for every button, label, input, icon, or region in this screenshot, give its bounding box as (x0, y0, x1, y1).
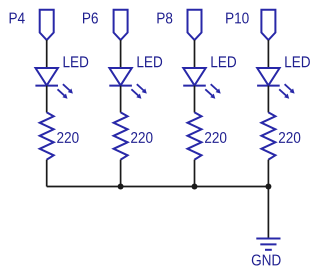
label 220 (R2 value) (131, 132, 152, 143)
label GND (252, 254, 281, 265)
wire LED3 to R3 (194, 86, 196, 113)
wire R4 to ground rail (267, 160, 269, 187)
junction node col4 on ground rail (265, 184, 271, 190)
wire R1 to ground rail (46, 160, 48, 187)
pin header P10 (261, 10, 275, 40)
label 220 (R3 value) (205, 132, 226, 143)
label P8 (157, 12, 172, 23)
label 220 (R4 value) (279, 132, 300, 143)
LED D2 (109, 68, 147, 99)
junction node col3 on ground rail (192, 184, 198, 190)
label P6 (83, 12, 98, 23)
wire P8 to LED3 (194, 40, 196, 68)
LED D4 (257, 68, 295, 99)
label LED (D3) (211, 56, 236, 67)
wire P6 to LED2 (120, 40, 122, 68)
label 220 (R1 value) (57, 132, 78, 143)
wire P4 to LED1 (46, 40, 48, 68)
pin header P4 (40, 10, 54, 40)
label LED (D4) (285, 56, 310, 67)
resistor R1 220 (40, 112, 54, 159)
label P4 (10, 13, 25, 24)
label LED (D2) (138, 56, 163, 67)
resistor R2 220 (114, 112, 128, 159)
wire R3 to ground rail (194, 160, 196, 187)
label LED (D1) (64, 56, 89, 67)
resistor R3 220 (188, 112, 202, 159)
ground symbol (256, 239, 280, 250)
LED D3 (183, 68, 221, 99)
wire LED1 to R1 (46, 86, 48, 113)
ground rail wire (47, 186, 269, 188)
label P10 (226, 12, 248, 23)
LED D1 (35, 68, 73, 99)
pin header P8 (188, 10, 202, 40)
wire LED2 to R2 (120, 86, 122, 113)
resistor R4 220 (261, 112, 275, 159)
pin header P6 (114, 10, 128, 40)
wire P10 to LED4 (267, 40, 269, 68)
junction node col2 on ground rail (118, 184, 124, 190)
wire LED4 to R4 (267, 86, 269, 113)
wire R2 to ground rail (120, 160, 122, 187)
wire rail to ground symbol (267, 187, 269, 239)
